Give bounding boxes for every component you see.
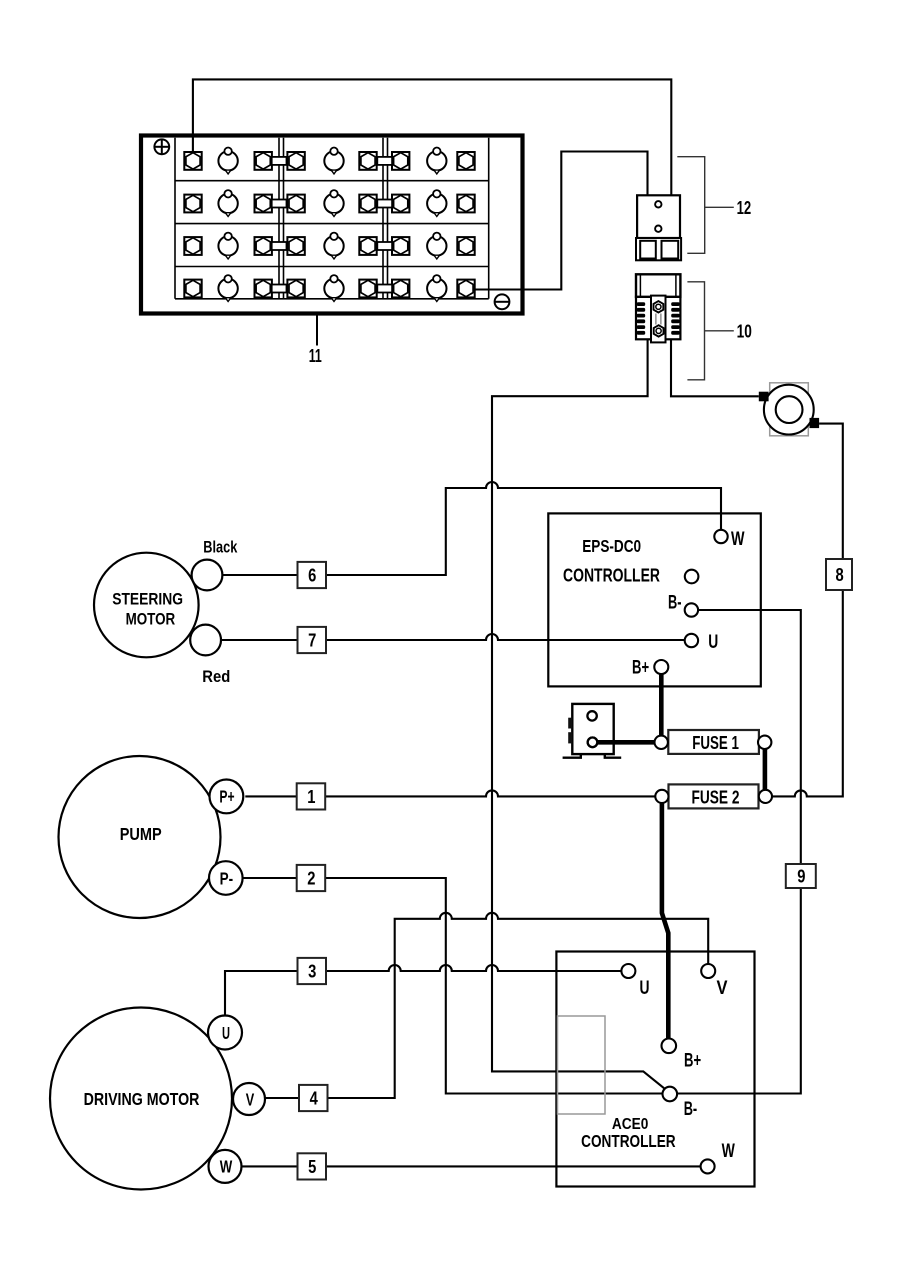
svg-text:PUMP: PUMP	[120, 824, 162, 844]
svg-text:FUSE 1: FUSE 1	[692, 732, 739, 753]
svg-text:DRIVING MOTOR: DRIVING MOTOR	[84, 1089, 200, 1109]
label 11 pointer	[316, 316, 318, 346]
ACE0 inner gray rect	[558, 1016, 606, 1114]
battery cell terminals and caps	[184, 148, 474, 302]
EPS unlabeled terminal	[685, 570, 699, 584]
pump	[59, 756, 221, 918]
wire 2: pump P- to ACE0 B-	[243, 878, 663, 1094]
wire 4: driving motor V to ACE0 V	[264, 913, 708, 1098]
svg-text:6: 6	[308, 565, 316, 586]
battery pack 11	[141, 136, 523, 314]
connector 12 (battery plug)	[636, 195, 681, 260]
thick wire FUSE1 right to FUSE2 right	[763, 745, 768, 793]
thick wire horn to FUSE1	[595, 740, 658, 745]
svg-text:1: 1	[307, 786, 315, 807]
bracket label 12	[677, 157, 734, 254]
driving motor U terminal	[208, 1016, 242, 1050]
battery negative symbol	[495, 294, 510, 309]
fuse F1 left terminal	[655, 736, 668, 749]
svg-text:U: U	[708, 631, 718, 653]
fuse F2 box	[669, 784, 759, 808]
svg-text:9: 9	[797, 866, 805, 887]
pump P- terminal	[209, 861, 243, 895]
svg-text:11: 11	[309, 345, 322, 366]
connector 10 side fins	[637, 302, 680, 334]
wire 6: steering black terminal to EPS W	[222, 482, 721, 575]
bracket label 10	[687, 282, 733, 380]
svg-text:3: 3	[308, 961, 316, 982]
svg-text:4: 4	[310, 1088, 319, 1109]
ACE0 terminal U	[621, 964, 635, 978]
svg-text:2: 2	[307, 868, 315, 889]
wire 8: key switch to FUSE2 right terminal	[772, 424, 843, 797]
horn feet	[563, 754, 622, 758]
fuse F2 left terminal	[655, 790, 668, 803]
EPS terminal B+ circle	[654, 660, 668, 674]
svg-text:STEERING: STEERING	[112, 591, 183, 609]
svg-text:B+: B+	[684, 1049, 701, 1071]
svg-text:7: 7	[308, 630, 316, 651]
svg-text:V: V	[717, 977, 728, 999]
wire 9: EPS B- to ACE0 B-	[677, 610, 801, 1094]
driving motor W terminal	[209, 1150, 242, 1183]
steering motor red terminal	[190, 625, 221, 656]
EPS terminal U	[685, 634, 698, 647]
wire battery negative to connector 12	[475, 152, 648, 290]
EPS-DC0 controller box	[548, 513, 761, 686]
svg-text:CONTROLLER: CONTROLLER	[581, 1131, 676, 1151]
svg-text:B-: B-	[684, 1098, 698, 1120]
thick wire EPS B+ down to FUSE1	[659, 670, 664, 742]
steering motor	[94, 553, 199, 658]
connector 10 (charger socket)	[636, 274, 680, 339]
key switch right terminal	[810, 418, 820, 428]
box 8	[826, 559, 852, 590]
wire 3: driving motor U to ACE0 U	[225, 965, 621, 1016]
box 3	[298, 958, 327, 984]
wire 1: pump P+ to FUSE2	[245, 790, 655, 796]
svg-text:W: W	[722, 1140, 736, 1162]
svg-text:EPS-DC0: EPS-DC0	[582, 536, 641, 556]
svg-text:12: 12	[737, 197, 752, 218]
svg-text:Red: Red	[202, 667, 230, 686]
box 4	[299, 1085, 328, 1111]
fuse F1 right terminal	[758, 736, 771, 749]
svg-text:W: W	[731, 528, 745, 550]
key switch left terminal	[759, 392, 769, 402]
horn / hour meter	[572, 704, 613, 754]
wire connector10 right pin to key switch	[671, 339, 759, 396]
driving motor V terminal	[233, 1083, 265, 1115]
thick wire FUSE2 left to ACE0 B+	[662, 800, 668, 1042]
svg-text:W: W	[220, 1157, 233, 1177]
svg-text:P+: P+	[219, 787, 234, 807]
box 6	[298, 562, 327, 588]
svg-text:FUSE 2: FUSE 2	[692, 786, 740, 807]
box 7	[298, 627, 327, 653]
ACE0 terminal B-	[663, 1087, 678, 1102]
EPS terminal W	[714, 530, 727, 543]
ACE0 controller box	[556, 952, 754, 1187]
battery positive symbol	[154, 139, 169, 154]
horn lower terminal circle	[588, 738, 598, 748]
ACE0 terminal V	[701, 964, 715, 978]
box 1	[297, 783, 326, 809]
box 5	[298, 1153, 327, 1179]
key switch body	[770, 383, 809, 436]
box 9	[786, 864, 816, 888]
wire battery positive to connector 12	[193, 79, 671, 195]
connector 10 center plate with bolts	[651, 296, 666, 343]
steering motor black terminal	[192, 560, 223, 591]
svg-text:Black: Black	[203, 537, 237, 556]
wire 5: driving motor W to ACE0 W	[241, 1165, 701, 1167]
ACE0 terminal W	[701, 1159, 715, 1173]
fuse F1 box	[668, 730, 759, 754]
svg-text:MOTOR: MOTOR	[126, 611, 176, 629]
svg-text:B+: B+	[632, 657, 649, 679]
svg-text:P-: P-	[220, 868, 234, 888]
wire 7: steering red terminal to EPS U	[221, 634, 685, 640]
svg-text:U: U	[640, 977, 650, 999]
horn left tab	[568, 718, 572, 729]
wire connector10 left pin to ACE0 B- (long vertical)	[492, 339, 665, 1088]
fuse F2 right terminal	[759, 790, 772, 803]
svg-text:B-: B-	[668, 591, 682, 613]
svg-text:10: 10	[737, 321, 752, 342]
ACE0 terminal B+	[662, 1039, 677, 1054]
svg-text:8: 8	[836, 564, 844, 585]
EPS terminal B-	[685, 603, 698, 616]
pump P+ terminal	[210, 780, 244, 814]
svg-text:V: V	[246, 1089, 255, 1109]
svg-text:CONTROLLER: CONTROLLER	[563, 565, 660, 585]
svg-text:U: U	[222, 1023, 230, 1043]
box 2	[297, 865, 326, 891]
svg-text:5: 5	[308, 1156, 316, 1177]
driving motor	[50, 1008, 232, 1190]
